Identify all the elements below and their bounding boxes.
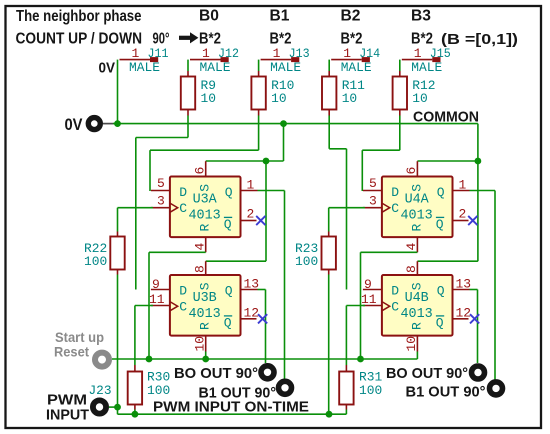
R9 top lead: [187, 71, 189, 77]
resistor R23: [322, 237, 336, 270]
wire U4A Q down to B1 OUT pad right: [494, 191, 496, 380]
wire U4B pin 11 down to R31: [345, 306, 347, 366]
wire R12 bottom down (crosses bus): [399, 116, 401, 151]
wire B3 horizontal: [362, 149, 400, 151]
wire bus end down right (S-net): [477, 124, 479, 262]
junction 0V at bus: [114, 120, 121, 127]
svg-text:9: 9: [364, 277, 372, 292]
flip-flop U4B body (4013): [382, 275, 453, 336]
wire U3B pin 11 down to R30: [134, 306, 136, 366]
svg-text:BO OUT 90°: BO OUT 90°: [174, 365, 258, 382]
svg-text:12: 12: [244, 305, 260, 320]
connector J13: [261, 57, 300, 62]
svg-text:10: 10: [412, 91, 427, 106]
R22 bottom lead: [117, 270, 119, 275]
svg-text:12: 12: [456, 305, 472, 320]
svg-text:R: R: [409, 224, 424, 232]
svg-text:10: 10: [201, 91, 216, 106]
svg-text:0V: 0V: [65, 116, 83, 134]
svg-text:B2: B2: [341, 8, 361, 25]
svg-text:D: D: [179, 185, 187, 200]
svg-text:4013: 4013: [401, 307, 433, 322]
junction S-net left: [263, 158, 270, 165]
U3B pin 8 (S): [205, 261, 207, 275]
resistor R10: [251, 77, 265, 110]
wire U4A Q right: [470, 190, 496, 192]
wire U3B Q down to BO OUT pad: [265, 290, 267, 364]
svg-text:100: 100: [359, 383, 382, 398]
R10 bottom lead: [258, 110, 260, 116]
svg-text:4: 4: [404, 243, 419, 251]
U3A pin 4 (R): [205, 237, 207, 252]
junction bus to S-net left: [280, 120, 287, 127]
wire S-net horizontal U4B: [417, 260, 478, 262]
U3A pin 5 (D): [151, 190, 170, 192]
U4A pin 3 (C): [363, 207, 382, 209]
no-connect X at U3B pin 12: [258, 314, 267, 323]
resistor R30: [128, 372, 142, 405]
wire U4B Q down to BO OUT pad right: [477, 290, 479, 364]
svg-text:MALE: MALE: [200, 60, 231, 75]
svg-text:2: 2: [459, 207, 467, 222]
svg-text:B3: B3: [411, 8, 431, 25]
svg-text:U3A: U3A: [193, 193, 218, 208]
U3B pin 11 (C): [151, 305, 170, 307]
resistor R31: [339, 372, 353, 405]
U4B pin 9 (D): [363, 289, 382, 291]
wire PWM pad stub: [109, 406, 118, 408]
U4B pin 8 (S): [416, 261, 418, 275]
svg-text:S: S: [409, 184, 424, 192]
R22 top lead: [117, 232, 119, 237]
svg-text:13: 13: [456, 277, 472, 292]
no-connect X at U3A pin 2: [256, 216, 265, 225]
svg-text:3: 3: [369, 193, 377, 208]
wire R9 top from connector: [187, 60, 189, 71]
wire R11 top from connector: [328, 60, 330, 71]
connector J15: [402, 57, 441, 62]
svg-text:J23: J23: [89, 383, 112, 398]
flip-flop U3B body (4013): [170, 275, 241, 336]
wire U4A pin 4 horizontal: [361, 251, 418, 253]
wire U3A pin 4 horizontal: [149, 251, 206, 253]
U4B pin 12 (Q-bar): [453, 318, 469, 320]
R11 bottom lead: [328, 110, 330, 116]
svg-text:C: C: [391, 299, 399, 314]
pad Start up Reset: [95, 353, 109, 367]
svg-text:100: 100: [147, 383, 170, 398]
svg-text:COMMON: COMMON: [413, 109, 479, 125]
wire 0V pad stub: [103, 123, 114, 125]
pad BO OUT left: [261, 366, 274, 379]
svg-text:10: 10: [271, 91, 286, 106]
wire R10 bottom down (crosses bus): [258, 116, 260, 151]
pad PWM INPUT (J23): [93, 400, 106, 413]
svg-text:6: 6: [404, 167, 419, 175]
wire R10 top from connector: [258, 60, 260, 71]
U4B clock triangle: [382, 302, 390, 311]
svg-text:Q: Q: [437, 284, 445, 299]
wire U3A Q down to B1 OUT pad: [284, 191, 286, 380]
junction U3B pin 10 at reset line: [202, 356, 209, 363]
svg-text:4013: 4013: [189, 209, 221, 224]
junction R30 at PWM line: [132, 411, 139, 418]
U3B clock triangle: [170, 302, 178, 311]
svg-text:Q: Q: [225, 284, 233, 299]
wire bus branch down left: [283, 124, 285, 161]
svg-text:4013: 4013: [401, 209, 433, 224]
U4A pin 2 (Q-bar): [453, 220, 469, 222]
U3B pin 9 (D): [151, 289, 170, 291]
resistor R22: [110, 237, 124, 270]
R30 top lead: [134, 365, 136, 372]
junction U4A pin 4 at reset line: [357, 356, 364, 363]
pad 0V: [88, 118, 100, 130]
wire U3A pin 3 to R22: [118, 207, 153, 209]
svg-text:The neighbor phase: The neighbor phase: [16, 8, 142, 25]
svg-text:1: 1: [247, 178, 255, 193]
svg-text:Q: Q: [436, 315, 444, 330]
R30 bottom lead: [134, 405, 136, 410]
svg-text:D: D: [391, 185, 399, 200]
U3B pin 13 (Q): [241, 289, 258, 291]
svg-text:100: 100: [295, 254, 318, 269]
wire reset line: [112, 358, 417, 360]
R31 bottom lead: [345, 405, 347, 410]
wire PWM line: [118, 413, 347, 415]
U3A clock triangle: [170, 203, 178, 212]
svg-text:MALE: MALE: [129, 60, 160, 75]
junction S-net right: [475, 158, 482, 165]
R12 bottom lead: [399, 110, 401, 116]
wire B0 horizontal: [136, 137, 188, 139]
wire R31 bottom to PWM line: [345, 410, 347, 415]
U4A pin 6 (S): [416, 161, 418, 176]
svg-text:2: 2: [247, 207, 255, 222]
svg-text:0V: 0V: [99, 60, 116, 77]
wire 0V/COMMON bus: [113, 123, 478, 125]
svg-text:100: 100: [84, 254, 107, 269]
connector J11: [120, 57, 159, 62]
svg-text:B1 OUT 90°: B1 OUT 90°: [406, 383, 486, 400]
arrow symbol: [179, 32, 198, 43]
wire 0V vertical from J11 to bus: [117, 60, 119, 124]
wire R23 bottom down to PWM line: [328, 275, 330, 415]
wire U4B pin 11 left: [346, 305, 365, 307]
wire U4A pin 4 down to reset line: [360, 252, 362, 359]
pad B1 OUT left: [279, 381, 292, 394]
wire S-net vertical down to U3B: [265, 161, 267, 261]
wire R30 bottom to PWM line: [134, 410, 136, 415]
svg-text:B1: B1: [270, 8, 290, 25]
wire B1 horizontal: [150, 149, 259, 151]
U4A pin 1 (Q): [453, 190, 470, 192]
U3A pin 3 (C): [151, 207, 170, 209]
svg-text:J13: J13: [289, 46, 310, 61]
U3A pin 2 (Q-bar): [241, 220, 257, 222]
svg-text:8: 8: [193, 265, 208, 273]
svg-text:Q: Q: [437, 185, 445, 200]
pad BO OUT right: [472, 366, 485, 379]
wire B2 horizontal: [329, 148, 346, 150]
svg-text:MALE: MALE: [411, 60, 442, 75]
wire U3A pin 4 down to reset line: [148, 252, 150, 359]
U4A pin 4 (R): [416, 237, 418, 252]
svg-text:13: 13: [244, 277, 260, 292]
svg-text:C: C: [391, 201, 399, 216]
wire B1 vertical to U3A pin 5: [149, 150, 151, 191]
flip-flop U4A body (4013): [382, 177, 453, 238]
connector J12: [190, 57, 229, 62]
svg-text:MALE: MALE: [270, 60, 301, 75]
svg-text:6: 6: [193, 167, 208, 175]
U4B pin 10 (R): [416, 336, 418, 352]
svg-text:U4B: U4B: [405, 291, 429, 306]
pad B1 OUT right: [490, 382, 503, 395]
svg-text:3: 3: [157, 193, 165, 208]
svg-text:10: 10: [342, 91, 357, 106]
wire U3B pin 11 left: [135, 305, 153, 307]
wire R22 bottom down to PWM line: [117, 275, 119, 415]
svg-text:R: R: [197, 224, 212, 232]
svg-text:Q: Q: [436, 217, 444, 232]
wire U4B Q right: [470, 289, 478, 291]
R11 top lead: [328, 71, 330, 77]
svg-text:J14: J14: [359, 46, 380, 61]
U3A pin 1 (Q): [241, 190, 258, 192]
U4B pin 11 (C): [363, 305, 382, 307]
junction R23 at PWM line: [326, 411, 333, 418]
svg-text:10: 10: [404, 336, 419, 352]
svg-text:J15: J15: [430, 46, 451, 61]
svg-text:8: 8: [404, 265, 419, 273]
R31 top lead: [345, 365, 347, 372]
no-connect X at U4A pin 2: [468, 216, 477, 225]
svg-text:R: R: [197, 322, 212, 330]
wire R11 bottom down (crosses bus): [328, 116, 330, 149]
junction PWM pad to R22 line: [114, 404, 121, 411]
svg-text:U4A: U4A: [405, 193, 430, 208]
U3B pin 12 (Q-bar): [241, 318, 257, 320]
svg-text:(B =[0,1]): (B =[0,1]): [441, 31, 518, 48]
wire U3A Q right: [258, 190, 285, 192]
wire S-net horizontal U4A: [417, 160, 478, 162]
svg-text:J12: J12: [218, 46, 239, 61]
svg-text:4: 4: [193, 243, 208, 251]
U3A pin 6 (S): [205, 161, 207, 176]
svg-text:Q: Q: [224, 217, 232, 232]
wire R12 top from connector: [399, 60, 401, 71]
svg-text:1: 1: [459, 178, 467, 193]
svg-text:9: 9: [152, 277, 160, 292]
junction U3A pin 4 at reset line: [146, 356, 153, 363]
svg-text:C: C: [179, 299, 187, 314]
U3B pin 10 (R): [205, 336, 207, 352]
wire B2 vertical to U4B pin 9: [346, 149, 348, 290]
svg-text:D: D: [179, 284, 187, 299]
U4A clock triangle: [382, 203, 390, 212]
svg-text:5: 5: [369, 176, 377, 191]
svg-text:BO OUT 90°: BO OUT 90°: [386, 365, 468, 382]
wire U4B pin 10 to reset line: [416, 352, 418, 360]
wire U3B pin 10 to reset line: [205, 352, 207, 360]
R12 top lead: [399, 71, 401, 77]
svg-text:B0: B0: [199, 8, 219, 25]
svg-text:Q: Q: [225, 185, 233, 200]
svg-text:D: D: [391, 284, 399, 299]
resistor R9: [181, 77, 195, 110]
svg-text:S: S: [197, 282, 212, 290]
no-connect X at U4B pin 12: [470, 314, 479, 323]
R23 bottom lead: [328, 270, 330, 275]
R9 bottom lead: [187, 110, 189, 116]
svg-text:J11: J11: [148, 46, 169, 61]
wire B3 vertical to U4A pin 5: [361, 150, 363, 191]
wire R23 top: [328, 208, 330, 232]
wire U3B Q right: [258, 289, 266, 291]
svg-text:Q: Q: [224, 315, 232, 330]
wire R22 top: [117, 208, 119, 232]
svg-text:MALE: MALE: [341, 60, 372, 75]
svg-text:U3B: U3B: [193, 291, 217, 306]
U4A pin 5 (D): [363, 190, 382, 192]
svg-text:10: 10: [193, 336, 208, 352]
svg-text:INPUT: INPUT: [46, 407, 89, 424]
wire S-net horizontal U3B: [206, 260, 266, 262]
svg-text:C: C: [179, 201, 187, 216]
svg-text:4013: 4013: [189, 307, 221, 322]
svg-text:Reset: Reset: [54, 343, 89, 359]
R10 top lead: [258, 71, 260, 77]
resistor R12: [393, 77, 407, 110]
svg-text:5: 5: [157, 176, 165, 191]
svg-text:PWM INPUT ON-TIME: PWM INPUT ON-TIME: [153, 398, 309, 415]
svg-text:S: S: [197, 184, 212, 192]
wire B0 vertical to U3B pin 9: [135, 138, 137, 290]
R23 top lead: [328, 232, 330, 237]
svg-text:COUNT UP / DOWN: COUNT UP / DOWN: [16, 31, 143, 48]
connector J14: [331, 57, 370, 62]
svg-text:S: S: [409, 282, 424, 290]
resistor R11: [322, 77, 336, 110]
U4B pin 13 (Q): [453, 289, 470, 291]
wire S-net horizontal U3A: [206, 160, 284, 162]
flip-flop U3A body (4013): [170, 177, 241, 238]
wire R9 bottom down (crosses bus): [187, 116, 189, 138]
svg-text:R: R: [409, 322, 424, 330]
wire U4A pin 3 to R23: [329, 207, 365, 209]
